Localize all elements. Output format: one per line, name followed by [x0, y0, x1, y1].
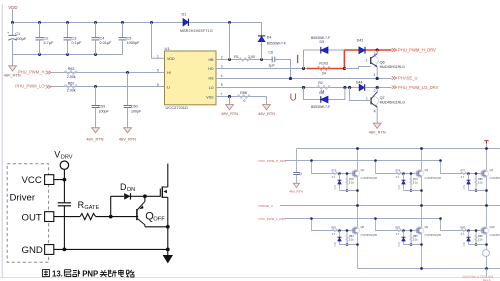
junction on gate bus (Q9 cell): [374, 217, 377, 220]
diode D6 B0530W-7-F: [311, 91, 330, 109]
wire: Q6 base jog to R103 node: [344, 67, 370, 69]
svg-text:1µF: 1µF: [268, 63, 275, 67]
wire: source row (Q3): [404, 190, 422, 192]
node: source on GND rail: [166, 248, 170, 252]
svg-text:4.7: 4.7: [332, 232, 336, 236]
svg-text:Q3: Q3: [425, 168, 429, 172]
capacitor C1 100uF (polarized): [8, 23, 16, 55]
svg-text:5: 5: [157, 69, 159, 73]
wire: stub below source bus: [486, 269, 488, 278]
junction dots on rails: [11, 21, 231, 56]
wire: source row (Q9): [404, 244, 422, 246]
svg-text:CSD18532Q5B: CSD18532Q5B: [361, 177, 378, 180]
SECTION: bottom-right power stage mini schematic: [259, 141, 500, 281]
net label PHU_PWM_H: [18, 70, 51, 75]
svg-text:2.00k: 2.00k: [67, 75, 76, 79]
resistor R_GATE: [80, 214, 96, 220]
junction: drain on bus (Q10): [485, 204, 488, 207]
svg-text:3: 3: [221, 64, 223, 68]
wire: D6 branch: [304, 88, 345, 100]
capacitor C4 0.01uF: [92, 23, 100, 55]
junction: LI / C59: [94, 85, 97, 88]
resistor R62 2.00k: [64, 81, 77, 92]
wire: gate drop (Q10 cell): [441, 219, 483, 231]
diode D44: [356, 80, 365, 90]
junction: HS / Q6 emitter: [376, 77, 379, 80]
capacitor (VDRV bypass): [58, 203, 71, 206]
diode D5 B0530W-7-F: [311, 36, 330, 54]
svg-text:D36: D36: [334, 241, 337, 246]
svg-text:R82: R82: [396, 226, 401, 230]
svg-text:PHU_PWM_LO: PHU_PWM_LO: [15, 84, 45, 89]
svg-text:B0530W-7-F: B0530W-7-F: [267, 42, 286, 46]
svg-text:C5: C5: [127, 36, 132, 40]
svg-text:4.7: 4.7: [396, 175, 400, 179]
svg-text:ON: ON: [127, 187, 135, 193]
svg-text:R83: R83: [461, 226, 466, 230]
wire: VSS line from pin 7: [216, 96, 267, 98]
wire: D_ON branch: [111, 196, 125, 216]
svg-text:R75: R75: [332, 169, 337, 173]
resistor R1 2.00: [234, 55, 255, 61]
op-amp U1 UCC27211D driver IC body: [165, 46, 217, 110]
zener diode D35 (gate-source): [468, 174, 470, 191]
ground 48V_RTN (VSS): [221, 105, 238, 116]
svg-text:R2: R2: [318, 81, 323, 85]
wire: highlighted riser R103 to D43: [343, 50, 345, 69]
svg-text:Q7: Q7: [380, 96, 385, 100]
zener diode D33 (gate-source): [339, 174, 341, 191]
junction: source row tap (Q4): [485, 189, 488, 192]
junction on gate bus (Q2 cell): [310, 159, 313, 162]
wire: VDD drop to U1 pin 1: [152, 23, 165, 59]
svg-text:R98: R98: [240, 91, 247, 95]
transistor Q10 CSD (NFET): [481, 206, 489, 269]
svg-text:PHU_PWM_L_DRV: PHU_PWM_L_DRV: [259, 217, 287, 221]
wire: OUT to resistor: [54, 216, 80, 218]
svg-text:24: 24: [322, 71, 326, 75]
svg-text:U: U: [290, 93, 297, 104]
svg-text:5.1k: 5.1k: [349, 237, 355, 241]
wire: cap to GND rail: [63, 206, 65, 250]
svg-text:HS: HS: [209, 77, 215, 81]
node: cap on GND rail: [63, 248, 67, 252]
svg-text:48V_RTN: 48V_RTN: [369, 130, 386, 135]
junction on gate bus (Q4 cell): [439, 159, 442, 162]
junction: gate node (Q2): [338, 172, 341, 175]
wire: D5 branch riser: [303, 50, 305, 69]
resistor R2 24: [317, 81, 330, 93]
wire: LI line: [51, 86, 165, 88]
svg-text:DRV: DRV: [61, 155, 73, 161]
wire: VCC pin to node: [54, 179, 65, 181]
svg-text:R81: R81: [332, 226, 337, 230]
wire: R98 right to ground: [266, 97, 268, 105]
net label PHU_PWM_LO: [15, 84, 51, 89]
junction: output node PHU_PWM_H_DRV: [376, 48, 379, 51]
resistor R83 (gate): [461, 229, 468, 232]
svg-text:C1: C1: [15, 32, 20, 36]
capacitor C60 100pF: [124, 73, 142, 128]
resistor R84 (gate pulldown): [346, 231, 348, 245]
wire: gate drop (Q9 cell): [376, 219, 418, 231]
wire: riser HB to VDD rail: [229, 23, 231, 60]
wire: GND rail: [54, 248, 168, 250]
svg-text:D44: D44: [356, 80, 363, 84]
svg-text:4: 4: [221, 74, 223, 78]
wire: gate node to MOSFET gate: [145, 195, 160, 197]
svg-text:CSD18532Q5B: CSD18532Q5B: [425, 234, 442, 237]
svg-text:UCC27211D: UCC27211D: [166, 105, 188, 110]
svg-text:CSD18532Q5B: CSD18532Q5B: [490, 177, 500, 180]
node: VCC junction: [63, 178, 67, 182]
wire: low-side gate bus: [285, 218, 441, 220]
svg-text:100pF: 100pF: [99, 109, 110, 113]
hanzi 图: [42, 270, 49, 277]
ground arrow (figure): [163, 249, 173, 263]
marker I (red): [297, 55, 299, 63]
svg-text:D1: D1: [182, 12, 187, 16]
wire: LO line after D44: [365, 87, 392, 89]
resistor R82 (gate): [396, 229, 403, 232]
junction: source row tap (Q10): [485, 243, 488, 246]
wire: source row (Q10): [469, 244, 487, 246]
ground 48V_RTN (R98): [258, 105, 275, 116]
resistor R86 (gate pulldown): [475, 231, 477, 245]
power flag on DC bus: [484, 141, 488, 149]
pin GND: [22, 245, 54, 257]
hanzi 路: [126, 270, 134, 277]
svg-text:5.1k: 5.1k: [349, 180, 355, 184]
svg-text:0.1µF: 0.1µF: [72, 41, 82, 45]
hanzi 断: [109, 270, 117, 277]
svg-text:5: 5: [221, 83, 223, 87]
svg-text:OFF: OFF: [153, 216, 165, 222]
terminal V_DRV: [54, 149, 73, 169]
junction: HI / C60: [126, 71, 129, 74]
junction on gate bus (Q8 cell): [310, 217, 313, 220]
wire: source row (Q4): [469, 190, 487, 192]
ground 48V_RTN (bypass rail): [4, 55, 21, 78]
svg-text:4.7: 4.7: [461, 232, 465, 236]
svg-text:R76: R76: [396, 169, 401, 173]
zener diode D34 (gate-source): [403, 174, 405, 191]
net label PHU_PWM_LO_DRV: [392, 85, 439, 90]
svg-text:2.00: 2.00: [248, 55, 255, 59]
transistor Q6 MUD45H11RLG: [366, 50, 405, 79]
svg-text:5.1k: 5.1k: [413, 180, 419, 184]
junction: gate node (Q9): [402, 229, 405, 232]
svg-text:0.01µF: 0.01µF: [100, 41, 113, 45]
junction on gate bus (Q10 cell): [439, 217, 442, 220]
hanzi 电: [119, 270, 124, 277]
transistor Q9 CSD (NFET): [416, 206, 424, 269]
ground 48V_RTN (Q7): [369, 123, 386, 134]
svg-text:HO: HO: [208, 67, 214, 71]
caption: 图 13. 局部 PNP 关断电路: [42, 270, 134, 279]
wire: VDRV vertical: [63, 169, 65, 202]
resistor R63 2.00k: [64, 67, 77, 79]
junction: gate node (Q3): [402, 172, 405, 175]
wire: gate drop (Q4 cell): [441, 161, 483, 174]
pin OUT: [22, 212, 54, 224]
junction: LO output node: [376, 86, 379, 89]
transistor Q_OFF (PNP): [137, 196, 168, 227]
resistor R80 (gate pulldown): [475, 174, 477, 191]
junction: LO / Q7 base: [348, 86, 351, 89]
junction: LO / D6 branch left: [302, 86, 305, 89]
svg-text:4: 4: [374, 110, 376, 114]
svg-text:6: 6: [157, 83, 159, 87]
junction: source row tap (Q9): [420, 243, 423, 246]
svg-text:C3: C3: [72, 36, 77, 40]
wire: phase node line: [280, 205, 500, 207]
svg-text:D4: D4: [267, 36, 272, 40]
svg-text:1000pF: 1000pF: [127, 41, 141, 45]
diode D43: [357, 38, 365, 53]
svg-text:D38: D38: [463, 241, 466, 246]
junction: source row tap (Q2): [356, 189, 359, 192]
junction: drain on bus (Q3): [420, 147, 423, 150]
svg-text:C6: C6: [268, 51, 273, 55]
zener diode D38 (gate-source): [468, 231, 470, 245]
svg-text:R63: R63: [68, 67, 75, 71]
svg-text:B0530W-7-F: B0530W-7-F: [311, 105, 330, 109]
svg-text:C2: C2: [44, 36, 49, 40]
junction: gate node (Q4): [467, 172, 470, 175]
svg-text:4.7: 4.7: [396, 232, 400, 236]
transistor Q7 MUD45H11RLG: [366, 88, 405, 108]
capacitor C3 0.1uF: [64, 23, 72, 55]
net label PHASE_U: [392, 76, 418, 81]
resistor R76 (gate): [396, 172, 403, 175]
SECTION: top gate-driver schematic: [4, 5, 439, 142]
svg-text:48V_RTN: 48V_RTN: [86, 137, 103, 142]
svg-text:D33: D33: [334, 184, 337, 189]
svg-text:4.7µF: 4.7µF: [44, 41, 54, 45]
wire: HS line from pin 4: [216, 78, 392, 80]
junction: HO / D5 branch: [302, 67, 305, 70]
svg-text:OUT: OUT: [22, 212, 42, 223]
svg-text:MUD45H11RLG: MUD45H11RLG: [380, 65, 405, 69]
svg-text:5.1k: 5.1k: [413, 237, 419, 241]
svg-text:Q4: Q4: [490, 168, 494, 172]
svg-text:48V_RTN: 48V_RTN: [289, 189, 303, 193]
svg-text:Q2: Q2: [361, 168, 365, 172]
wire: source row (Q2): [340, 190, 358, 192]
capacitor C2 4.7uF: [36, 23, 44, 55]
resistor R75 (gate): [332, 172, 339, 175]
svg-text:3: 3: [374, 73, 376, 77]
wire: HI line: [51, 72, 165, 74]
diode D1 MBR2H200SFT1G (on VDD rail): [180, 12, 213, 33]
capacitor C6 1uF (bootstrap): [268, 51, 290, 79]
node: gate node: [143, 194, 147, 198]
svg-text:D6: D6: [319, 91, 324, 95]
resistor R77 (gate): [461, 172, 468, 175]
wire: VDD top rail: [13, 22, 262, 24]
svg-text:VDD: VDD: [167, 57, 175, 61]
svg-text:100pF: 100pF: [131, 109, 142, 113]
junction on gate bus (Q3 cell): [374, 159, 377, 162]
capacitor bus bypass + ground: [293, 149, 302, 184]
svg-text:R62: R62: [68, 81, 75, 85]
junction: source row tap (Q8): [356, 243, 359, 246]
capacitor C59 100pF: [92, 87, 110, 128]
svg-text:D37: D37: [398, 241, 401, 246]
svg-text:0: 0: [243, 99, 245, 103]
svg-text:U1: U1: [165, 46, 171, 51]
svg-text:R1: R1: [234, 55, 239, 59]
svg-text:D5: D5: [320, 40, 325, 44]
resistor R103 24 (highlighted net): [307, 61, 345, 75]
svg-text:PHU_PWM_H_DRV: PHU_PWM_H_DRV: [259, 159, 288, 163]
svg-text:VSS: VSS: [206, 95, 214, 99]
svg-text:Q8: Q8: [361, 225, 365, 229]
junction: HS / C6: [289, 77, 292, 80]
wire: Q7 base jog: [350, 88, 372, 101]
svg-text:LO: LO: [209, 86, 214, 90]
svg-text:PHU_PWM_LO_DRV: PHU_PWM_LO_DRV: [398, 85, 439, 90]
svg-text:V: V: [54, 149, 60, 159]
zener diode D36 (gate-source): [339, 231, 341, 245]
svg-text:CSD18532Q5B: CSD18532Q5B: [361, 234, 378, 237]
wire: source row (Q8): [340, 244, 358, 246]
pin VCC: [22, 175, 54, 187]
zener diode D37 (gate-source): [403, 231, 405, 245]
svg-text:PNP: PNP: [82, 270, 98, 279]
svg-text:GATE: GATE: [84, 205, 99, 211]
svg-text:48V_RTN: 48V_RTN: [221, 111, 238, 116]
diode D_ON: [124, 193, 145, 200]
svg-text:2.00k: 2.00k: [67, 89, 76, 93]
ground 48V_RTN (C60): [119, 128, 136, 142]
label D_ON: [120, 182, 135, 193]
resistor R98 0: [237, 91, 250, 103]
svg-text:5.1k: 5.1k: [478, 180, 484, 184]
svg-text:5.1k: 5.1k: [478, 237, 484, 241]
junction: LO / D6 branch right: [343, 86, 346, 89]
transistor Q2 CSD (NFET): [352, 149, 360, 206]
wire: low-side source bus: [358, 268, 500, 270]
svg-text:Q6: Q6: [380, 61, 385, 65]
transistor Q8 CSD (NFET): [352, 206, 360, 269]
svg-text:4.7: 4.7: [332, 175, 336, 179]
svg-text:2: 2: [221, 55, 223, 59]
svg-text:D35: D35: [463, 184, 466, 189]
svg-text:C59: C59: [99, 105, 106, 109]
svg-text:D34: D34: [398, 184, 401, 189]
label R_GATE: [78, 200, 100, 211]
svg-text:HI: HI: [167, 71, 171, 75]
svg-text:C60: C60: [131, 105, 138, 109]
svg-text:48V_RTN: 48V_RTN: [119, 137, 136, 142]
resistor R78 (gate pulldown): [346, 174, 348, 191]
junction dots on low-side source bus: [420, 267, 423, 270]
svg-text:Q10: Q10: [490, 225, 495, 229]
junction: gate node (Q10): [467, 229, 470, 232]
resistor R79 (gate pulldown): [410, 174, 412, 191]
junction: drain on bus (Q9): [420, 204, 423, 207]
transistor MOSFET (NMOS): [160, 164, 168, 250]
svg-text:7: 7: [220, 93, 222, 97]
junction: VSS ground tap: [228, 95, 231, 98]
wire: gate drop (Q3 cell): [376, 161, 418, 174]
dashed driver box: [7, 164, 48, 262]
svg-text:MBR2H200SFT1G: MBR2H200SFT1G: [180, 29, 213, 33]
transistor Q4 CSD (NFET): [481, 149, 489, 206]
hanzi 局: [64, 270, 70, 277]
hanzi 关: [100, 270, 108, 277]
svg-text:Driver: Driver: [10, 192, 36, 203]
svg-text:LI: LI: [167, 85, 170, 89]
capacitor C5 1000pF: [119, 23, 127, 55]
hanzi 部: [73, 270, 80, 277]
wire: VSS dot to ground: [229, 97, 231, 105]
SECTION: bottom-left datasheet figure: [7, 149, 173, 278]
svg-text:B0530W-7-F: B0530W-7-F: [311, 36, 330, 40]
junction: HB / D4: [260, 58, 263, 61]
svg-text:HB: HB: [209, 58, 215, 62]
probe circle on phase C source: [483, 250, 490, 257]
junction: source row tap (Q3): [420, 189, 423, 192]
wire: gate drop (Q8 cell): [312, 219, 354, 231]
svg-text:CSD18532Q5B: CSD18532Q5B: [425, 177, 442, 180]
wire: resistor to Q_OFF base: [96, 216, 139, 218]
wire: Q7 emitter to ground: [376, 107, 378, 123]
resistor R85 (gate pulldown): [410, 231, 412, 245]
net label PHU_PWM_H_DRV: [392, 48, 436, 53]
svg-text:4.7: 4.7: [461, 175, 465, 179]
svg-text:CSD18532Q5B: CSD18532Q5B: [490, 234, 500, 237]
svg-text:C4: C4: [100, 36, 105, 40]
svg-text:13.: 13.: [52, 270, 63, 279]
svg-text:PHU_PWM_H_DRV: PHU_PWM_H_DRV: [398, 48, 436, 53]
svg-text:PHU_PWM_H: PHU_PWM_H: [18, 70, 45, 75]
transistor Q3 CSD (NFET): [416, 149, 424, 206]
svg-text:PHASE_U: PHASE_U: [398, 76, 418, 81]
svg-text:Q9: Q9: [425, 225, 429, 229]
junction: drain on bus (Q4): [485, 147, 488, 150]
resistor R81 (gate): [332, 229, 339, 232]
svg-text:MUD45H11RLG: MUD45H11RLG: [380, 101, 405, 105]
node: Q_OFF collector to source line: [166, 225, 170, 229]
wire: LO line from pin 5: [216, 87, 359, 89]
svg-text:1: 1: [366, 58, 368, 62]
svg-text:GND: GND: [22, 245, 43, 256]
junction: HB / rail riser: [228, 58, 231, 61]
svg-text:2: 2: [374, 89, 376, 93]
svg-text:VDD: VDD: [8, 5, 17, 10]
svg-text:48V_RTN: 48V_RTN: [258, 111, 275, 116]
junction: drain on bus (Q2): [356, 147, 359, 150]
svg-text:PHASE_U: PHASE_U: [259, 204, 273, 208]
junction: gate node (Q8): [338, 229, 341, 232]
wire: HO line from pin 3: [216, 68, 307, 70]
wire: D5 branch top: [304, 49, 345, 51]
ground 48V_RTN (C59): [86, 128, 103, 142]
ground 48V_RTN (bus bypass): [289, 183, 303, 193]
svg-text:D43: D43: [357, 38, 364, 42]
junction: drain on bus (Q8): [356, 204, 359, 207]
diode D4 B0530W-7-F (bootstrap): [258, 23, 286, 60]
wire: bypass bottom rail: [13, 54, 123, 56]
wire: HB line from pin 2: [216, 59, 272, 61]
svg-text:R103: R103: [319, 61, 328, 65]
wire: DC bus rail: [297, 148, 500, 150]
svg-text:VCC: VCC: [22, 175, 42, 186]
svg-text:100µF: 100µF: [15, 37, 27, 41]
